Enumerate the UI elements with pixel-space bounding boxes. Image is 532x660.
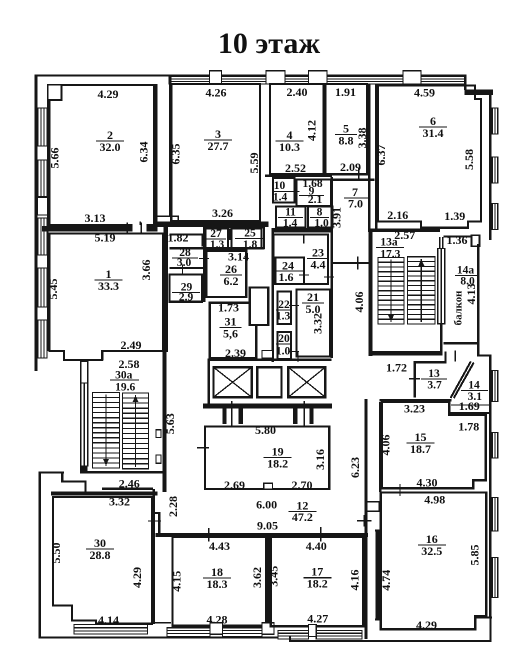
landing steps — [61, 471, 63, 481]
door tick rooms 20/21 — [289, 351, 299, 352]
window sill east 2 — [492, 157, 498, 183]
window sill east 1 — [492, 108, 498, 134]
room 3 outline — [171, 84, 260, 221]
door tick corridor to room 16 — [363, 515, 364, 527]
room 18 outline — [173, 537, 267, 626]
room 17 outline — [271, 537, 364, 626]
room 16 SE step — [476, 616, 492, 618]
svg-text:18.7: 18.7 — [410, 442, 431, 456]
svg-text:5.19: 5.19 — [95, 231, 116, 245]
wall rooms 2-1 band — [42, 226, 158, 232]
room 15 top wall thick — [379, 399, 451, 402]
svg-text:4.13: 4.13 — [464, 284, 478, 305]
room 30 outline — [53, 497, 152, 624]
door tick room 5 to 7 — [358, 168, 360, 181]
svg-text:2.16: 2.16 — [387, 208, 408, 222]
wall rooms 27-26 left — [203, 226, 205, 303]
stairwell 30a west window — [81, 383, 88, 466]
wall corridor west x332 — [331, 177, 333, 358]
door tick corridor/room 18 — [208, 528, 210, 542]
balcony door — [439, 237, 440, 249]
svg-text:4.40: 4.40 — [306, 539, 327, 553]
svg-text:4.29: 4.29 — [98, 87, 119, 101]
svg-text:5.45: 5.45 — [46, 279, 60, 300]
room 13 left wall — [414, 361, 416, 397]
svg-text:1.3: 1.3 — [276, 311, 291, 323]
svg-text:33.3: 33.3 — [98, 279, 119, 293]
window west 5 — [38, 320, 47, 358]
window east 1.78 — [492, 433, 498, 459]
room 4 outline — [270, 84, 323, 174]
door tick room 24 — [299, 274, 309, 275]
room 31 outline — [210, 303, 256, 359]
wall north-east corner step — [464, 75, 466, 90]
room 23 outline — [274, 235, 329, 285]
svg-text:28.8: 28.8 — [90, 548, 111, 562]
door tick corridor/stairwell 13a — [357, 257, 359, 270]
door ticks room 1 top — [127, 223, 128, 235]
stairwell 13a west wall — [369, 229, 373, 357]
wall rooms 25/23 shaft line — [263, 222, 265, 250]
room 29 outline — [170, 275, 203, 302]
door tick room 2/1 — [139, 222, 141, 235]
wall room 6 left — [375, 84, 378, 229]
wall elevator block left — [207, 360, 209, 406]
room 24 inner line — [276, 270, 305, 271]
svg-text:3.16: 3.16 — [313, 449, 327, 470]
svg-text:6.35: 6.35 — [169, 144, 183, 165]
elevator lobby pier 1 — [222, 409, 226, 424]
svg-text:2.1: 2.1 — [308, 194, 323, 206]
door tick corridor to room 19 — [197, 447, 209, 448]
stairwell 30a east pilasters — [156, 430, 161, 438]
svg-text:4.74: 4.74 — [379, 570, 393, 591]
svg-text:3.66: 3.66 — [139, 260, 153, 281]
south outer line east — [290, 640, 492, 642]
svg-text:17.3: 17.3 — [380, 249, 400, 261]
svg-text:4.43: 4.43 — [209, 539, 230, 553]
door tick rooms 22/21 — [289, 305, 299, 306]
door tick room 15 — [399, 484, 400, 496]
svg-text:1.36: 1.36 — [447, 233, 468, 247]
balcony to facade step — [477, 342, 479, 357]
svg-text:4.15: 4.15 — [170, 571, 184, 592]
room 21 outline — [297, 290, 331, 357]
door gap room 2 to room 1 — [133, 224, 147, 233]
elevator shaft small — [250, 288, 268, 326]
balcony bottom wall — [444, 342, 480, 344]
corridor step at room 30 — [153, 512, 160, 514]
svg-text:47.2: 47.2 — [292, 510, 313, 524]
svg-text:2.40: 2.40 — [287, 85, 308, 99]
room 24 outline — [276, 258, 305, 285]
stairs 13a right flight — [408, 257, 436, 324]
svg-text:2.70: 2.70 — [292, 478, 313, 492]
svg-text:1.4: 1.4 — [273, 192, 288, 204]
balcony outer wall east — [477, 244, 480, 344]
elevator lobby pier 3 — [293, 409, 297, 424]
svg-text:1.6: 1.6 — [279, 270, 294, 284]
svg-text:4.98: 4.98 — [424, 493, 445, 507]
svg-text:5.58: 5.58 — [462, 149, 476, 170]
svg-text:5.59: 5.59 — [247, 153, 261, 174]
room 20 outline — [278, 332, 292, 359]
balcony top wall — [444, 235, 474, 237]
room 11 outline — [276, 207, 306, 228]
window south pier 18 — [210, 623, 223, 635]
door tick room 30 — [148, 520, 161, 521]
svg-text:3.7: 3.7 — [427, 380, 442, 392]
window south room 18 right — [223, 628, 263, 637]
diagonal wall rooms 13/14 — [451, 362, 471, 399]
vestibule 1.82 outline — [170, 235, 203, 247]
svg-text:3.38: 3.38 — [355, 128, 369, 149]
door tick rooms 28/29 — [182, 265, 183, 276]
room 9 outline — [297, 180, 331, 206]
svg-text:2.52: 2.52 — [285, 161, 306, 175]
svg-text:4.12: 4.12 — [305, 120, 319, 141]
svg-text:5.63: 5.63 — [163, 413, 177, 434]
door tick corridor/room 17 — [320, 527, 322, 542]
window west 3 — [38, 218, 47, 255]
window east room 16 lower — [492, 558, 498, 598]
svg-text:4.06: 4.06 — [352, 292, 366, 313]
dimension line room 14 — [451, 404, 490, 405]
svg-text:4.27: 4.27 — [307, 612, 328, 626]
svg-text:3.62: 3.62 — [250, 567, 264, 588]
stairwell 13a east wall bits — [440, 324, 443, 356]
wall elevator block bottom band — [203, 403, 332, 408]
svg-text:6.34: 6.34 — [137, 142, 151, 163]
room 27 outline — [206, 229, 228, 248]
svg-text:19.6: 19.6 — [115, 381, 135, 393]
svg-text:27.7: 27.7 — [208, 139, 229, 153]
door tick rooms 27/25 — [229, 229, 230, 240]
stairwell 30a south wall — [84, 471, 165, 474]
window sill east 3 — [492, 204, 498, 230]
room 22 outline — [278, 292, 292, 325]
svg-text:10: 10 — [274, 180, 286, 192]
svg-text:1.78: 1.78 — [458, 420, 479, 434]
svg-text:2.9: 2.9 — [179, 292, 194, 304]
wall room 15 left — [379, 402, 382, 492]
window north above room 4 — [285, 77, 309, 84]
stairwell 30a west wall lower — [80, 466, 88, 474]
wall east facade south part — [489, 355, 492, 619]
svg-text:7.0: 7.0 — [348, 197, 363, 211]
svg-text:10 этаж: 10 этаж — [218, 27, 321, 60]
svg-text:1.4: 1.4 — [283, 217, 298, 229]
window south room 17 right — [316, 630, 362, 639]
window south pier 18/17 — [262, 623, 274, 635]
svg-text:1.82: 1.82 — [168, 231, 189, 245]
svg-text:8.8: 8.8 — [339, 133, 354, 147]
facade return at stairwell — [39, 471, 65, 473]
vestibule wall above room 14 — [445, 352, 447, 363]
svg-text:20: 20 — [278, 333, 290, 345]
svg-text:3.45: 3.45 — [267, 566, 281, 587]
wall north-west corner block — [35, 75, 38, 372]
svg-text:3.13: 3.13 — [85, 211, 106, 225]
svg-text:2.49: 2.49 — [121, 338, 142, 352]
corridor 12 bottom band — [155, 533, 367, 537]
stairwell 13a south band — [368, 351, 440, 355]
room 1 outline — [50, 234, 164, 361]
svg-text:18.3: 18.3 — [207, 577, 228, 591]
window south room 17 left — [278, 630, 309, 639]
vent bump north 4 — [403, 71, 421, 84]
window west 2 — [38, 160, 47, 197]
wall rooms 18/17 thick — [267, 537, 270, 627]
svg-text:9.05: 9.05 — [257, 519, 278, 533]
svg-text:4.59: 4.59 — [414, 86, 435, 100]
svg-text:13: 13 — [428, 368, 440, 380]
room 30 top band — [51, 492, 158, 496]
stairs 30a right flight — [123, 393, 149, 469]
room 2 outline — [50, 85, 155, 225]
window north above room 3 (left) — [169, 77, 210, 84]
shaft bump rooms 2/3 — [157, 216, 179, 225]
room 26 outline — [206, 251, 246, 297]
wall room 3 bottom band — [157, 222, 269, 228]
svg-text:4.16: 4.16 — [347, 570, 361, 591]
svg-text:18.2: 18.2 — [307, 577, 328, 591]
wall north facade outer line — [35, 75, 466, 77]
svg-text:2.28: 2.28 — [166, 496, 180, 517]
west facade lower — [39, 471, 41, 638]
wall room 2/3 shaft — [155, 84, 157, 227]
svg-text:4.4: 4.4 — [311, 257, 326, 271]
room 8 outline — [308, 207, 333, 228]
stairwell 13a east window wall — [438, 249, 445, 324]
wall elevator block top — [208, 358, 332, 361]
svg-text:3.26: 3.26 — [212, 206, 233, 220]
wall east facade north part — [489, 89, 492, 240]
svg-text:5.80: 5.80 — [255, 423, 276, 437]
elevator lobby pier 2 — [239, 409, 243, 424]
vent bump north 3 — [309, 71, 328, 84]
door tick elevator lobby left — [231, 401, 233, 427]
svg-text:10.3: 10.3 — [279, 140, 300, 154]
south outer line west — [39, 637, 290, 639]
svg-text:5.85: 5.85 — [468, 545, 482, 566]
svg-text:3.23: 3.23 — [404, 401, 425, 415]
stairs 30a left flight — [93, 393, 120, 469]
room 14 bottom wall — [449, 412, 491, 414]
door tick above elevators — [297, 352, 298, 362]
duct box corridor-16 — [367, 502, 380, 512]
svg-text:1.0: 1.0 — [314, 217, 329, 229]
door tick room 13 — [409, 378, 420, 379]
room 16 left wall lower — [375, 530, 380, 619]
pier west a — [37, 198, 48, 216]
wall room 7 top — [332, 179, 375, 182]
window north above rooms 3-4 — [222, 77, 267, 84]
svg-text:2.39: 2.39 — [225, 346, 246, 360]
wall rooms 22-20 left — [272, 232, 274, 362]
elevator 2 — [257, 367, 281, 397]
landing south wall — [102, 488, 153, 490]
svg-text:32.0: 32.0 — [100, 140, 121, 154]
stairwell 30a west wall upper — [81, 362, 88, 384]
room 25 outline — [232, 229, 262, 248]
balcony corner block — [472, 235, 480, 246]
wall corridor east / room 17 right — [365, 399, 368, 639]
duct above elevators — [262, 351, 273, 359]
window north above room 6 (right) — [421, 77, 466, 84]
stairs 13a left flight — [378, 258, 404, 325]
door tick room 28 — [199, 258, 209, 259]
svg-text:2.69: 2.69 — [224, 478, 245, 492]
room 13 top wall — [414, 361, 447, 363]
window north above rooms 5-6 — [327, 77, 403, 84]
svg-text:5.50: 5.50 — [49, 543, 63, 564]
vent bump north 2 — [266, 71, 285, 84]
door tick room 23 right — [324, 276, 334, 277]
wall stairwell 13a top band — [368, 229, 440, 232]
vent bump north 1 — [210, 71, 222, 84]
svg-text:5,6: 5,6 — [223, 326, 238, 340]
svg-text:22: 22 — [278, 299, 290, 311]
door tick vestibule 14 — [455, 351, 456, 362]
svg-text:6.2: 6.2 — [224, 274, 239, 288]
window west 4 — [38, 268, 47, 307]
duct strip rooms 30/18 bottom cap — [153, 622, 171, 624]
wall room 28 top / vestibule bottom — [170, 247, 265, 249]
stairwell 30a east wall — [163, 340, 167, 493]
room 16 outline — [381, 493, 487, 630]
door tick rooms 10/9 — [290, 191, 300, 192]
elevator lobby pier 4 — [310, 409, 314, 424]
window south pier 17 — [309, 624, 317, 636]
wall north band above room 2 inner line — [48, 84, 156, 86]
svg-text:6.23: 6.23 — [348, 457, 362, 478]
wall west inner face — [47, 84, 49, 351]
svg-text:3.32: 3.32 — [311, 313, 325, 334]
svg-text:4.30: 4.30 — [417, 476, 438, 490]
window south room 18 left — [167, 628, 210, 637]
door tick elevator lobby right — [303, 401, 305, 427]
svg-text:5.66: 5.66 — [48, 148, 62, 169]
room 1 notch verticals — [102, 351, 104, 361]
svg-text:31.4: 31.4 — [423, 126, 444, 140]
elevator 3 — [288, 367, 325, 397]
room 19 outline — [205, 427, 329, 490]
svg-text:32.5: 32.5 — [421, 544, 442, 558]
window east room 14 — [492, 371, 498, 402]
svg-text:балкон: балкон — [453, 291, 465, 326]
wall rooms 4-5 bottom — [265, 174, 332, 177]
svg-text:3.32: 3.32 — [109, 495, 130, 509]
svg-text:1.69: 1.69 — [459, 399, 480, 413]
room 1 right wall thick — [164, 226, 169, 352]
svg-text:13а: 13а — [380, 237, 398, 249]
svg-text:1.72: 1.72 — [386, 361, 407, 375]
room 6 outline — [378, 86, 481, 228]
svg-text:6.00: 6.00 — [256, 498, 277, 512]
wall corridor to stairwell 13a — [332, 262, 371, 264]
svg-text:1.91: 1.91 — [335, 85, 356, 99]
svg-text:4.26: 4.26 — [206, 86, 227, 100]
svg-text:14: 14 — [468, 380, 480, 392]
wall room 5 right / room 7 right — [368, 84, 371, 232]
window south room 30 — [74, 625, 147, 634]
svg-text:18.2: 18.2 — [267, 456, 288, 470]
svg-text:4.29: 4.29 — [130, 567, 144, 588]
room 15 outline — [382, 402, 486, 488]
door tick room 23 top — [303, 235, 304, 244]
wall rooms 11-8 bottom band — [272, 228, 334, 233]
room 5 outline — [325, 84, 367, 174]
wall room 28 bottom — [170, 267, 205, 269]
svg-text:30а: 30а — [115, 369, 133, 381]
svg-text:1.0: 1.0 — [276, 346, 291, 358]
room 19 bottom notch — [264, 483, 273, 489]
room 30 right wall — [152, 489, 155, 624]
wall rooms 27/25 top — [203, 226, 264, 228]
svg-text:4.06: 4.06 — [379, 435, 393, 456]
svg-text:1.39: 1.39 — [444, 209, 465, 223]
svg-text:25: 25 — [244, 228, 256, 240]
window east room 16 upper — [492, 498, 498, 532]
window west 1 — [38, 108, 47, 146]
svg-text:4.29: 4.29 — [416, 618, 437, 632]
room 10 outline — [273, 178, 295, 203]
elevator 1 — [214, 367, 252, 397]
